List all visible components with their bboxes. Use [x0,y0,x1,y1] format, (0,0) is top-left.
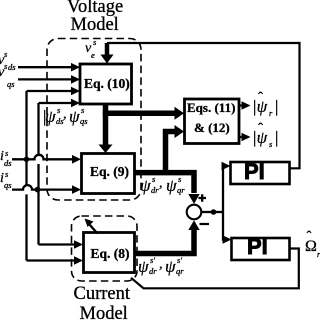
label v_e^s [85,42,91,56]
block text Eq. (10) [84,77,130,91]
summing junction circle [187,205,202,220]
label psi_ds, psi_qs stator flux [42,108,47,125]
wire v_qs input [18,78,72,80]
block Eq. (8) [84,233,135,273]
wire i_ds horizontal with hop over riser B [12,155,73,160]
thick bus: Eq.8 output right then up to summing - [135,230,195,254]
riser B: i_qs up to Eq.10 input 4 and down to Eq.8 input 1 [39,103,75,245]
block PI lower [232,238,290,260]
block text Eq. (9) [90,165,129,179]
label psi_dr, psi_qr voltage model rotor flux [140,177,151,194]
wire sum output to dot [201,211,214,213]
current model dashed box [72,216,138,281]
node dot on i_qs wire [35,187,41,193]
block Eq. (10) [80,64,132,104]
riser A: i_ds up to Eq.10 input 3 and down to Eq.8 input 2 [27,91,75,261]
block PI upper [231,162,290,184]
label i_ds^s [0,150,4,164]
thick bus: Eq.10 output down stub [103,104,109,146]
thick bus: Eq.10 output right to Eqs.(11)&(12) input 1 [103,110,176,116]
block Eqs. (11) & (12) [185,99,240,144]
title Voltage Model [67,0,123,16]
block text Eqs. (11) & (12) [187,101,235,114]
block text Eq. (8) [91,247,130,261]
label |psi_r hat| [252,98,267,115]
wire i_qs horizontal with hop over riser A [12,185,73,190]
label Omega hat speed estimate [305,239,317,255]
wire v_ds input [18,66,72,68]
thin output arrow |psi_s| [239,136,242,138]
block text PI lower [247,234,268,259]
voltage model dashed box [47,39,141,201]
node dot after summing junction [211,209,217,215]
block Eq. (9) [82,154,135,194]
label i_qs^s [0,172,4,186]
thick riser from Eq.9 bus up into Eqs.(11)&(12) input 2 [166,132,176,176]
v_e thick down arrow into Eq.10 [105,43,110,55]
wire dot down to PI2 input [222,212,225,240]
minus sign [200,223,210,225]
thick bus: Eq.9 output right then down to summing + [135,173,195,193]
wire PI2 output wrap-around to current model [131,249,299,289]
node dot on i_ds wire [24,157,30,163]
stub dot to riser [214,211,225,213]
feedback wire top: PI1 output up and across to v_e [107,43,300,168]
adaptation arrow on Eq.8 [89,224,98,234]
label v_qs^s [0,66,4,80]
label |psi_s hat| [252,129,267,146]
title Current Model [74,285,131,304]
plus sign [199,194,207,202]
thin output arrow |psi_r| [239,104,242,106]
label v_ds^s [0,54,4,68]
label psi'_dr, psi'_qr current model rotor flux [138,258,149,275]
wire dot up to PI1 input [221,166,224,212]
block text PI upper [244,159,265,184]
